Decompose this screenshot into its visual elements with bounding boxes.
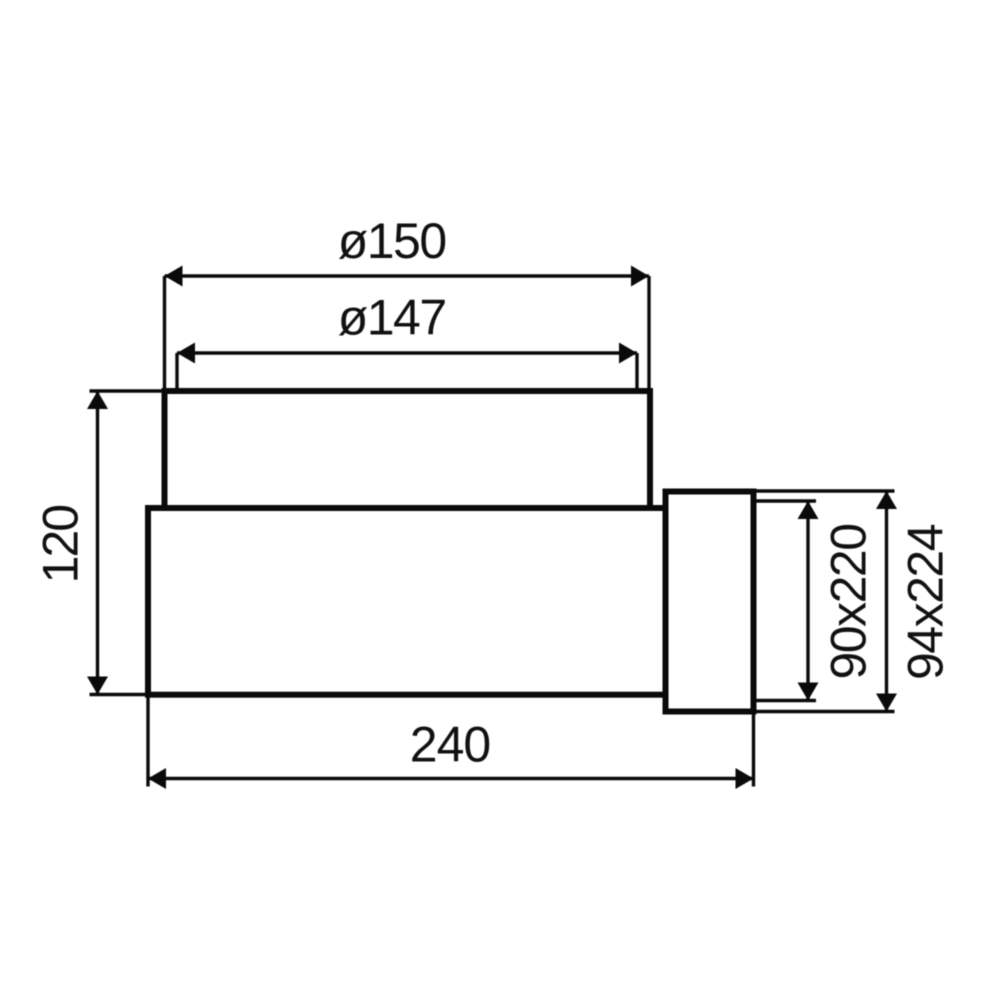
svg-text:240: 240 [410,717,490,773]
arrowhead 90x220 top [798,501,819,519]
dimension 240: dimension line [148,777,754,780]
arrowhead ø150 left [165,266,183,287]
main body rectangle [148,508,666,695]
dimension ø147: extension line right [635,353,638,391]
dimension 94x224: extension line bottom [757,710,895,713]
dimension 120: extension line bottom [90,693,149,696]
arrowhead ø147 right [619,343,637,364]
arrowhead 120 top [87,391,108,409]
dimension ø147: extension line left [175,353,178,391]
right flange (rectangular outlet) [666,492,754,712]
arrowhead 94x224 top [876,491,897,509]
collar (round spigot body, top rectangle) [165,391,651,508]
dimension 120: extension line top [90,389,165,392]
dimension 90x220: extension line top [754,499,817,502]
arrowhead 120 bottom [87,677,108,695]
svg-text:ø150: ø150 [338,213,446,269]
dimension 120: dimension line [96,391,99,695]
svg-text:ø147: ø147 [338,290,446,346]
dimension 240: extension line left [146,698,149,787]
dimension 94x224: extension line top [757,489,895,492]
dimension ø150: dimension line [165,274,650,277]
arrowhead 240 right [736,768,754,789]
dimension ø150: extension line left [163,276,166,391]
dimension ø147: dimension line [177,351,637,354]
arrowhead ø147 left [177,343,195,364]
dimension 240: extension line right [752,715,755,787]
arrowhead 90x220 bottom [798,683,819,701]
svg-text:120: 120 [32,506,88,584]
svg-text:94x224: 94x224 [898,524,954,680]
svg-text:90x220: 90x220 [821,524,877,679]
dimension 94x224: dimension line [885,491,888,712]
arrowhead 94x224 bottom [876,694,897,712]
dimension ø150: extension line right [647,276,650,391]
arrowhead ø150 right [631,266,649,287]
dimension 90x220: extension line bottom [754,699,817,702]
dimension 90x220: dimension line [806,501,809,701]
arrowhead 240 left [148,768,166,789]
